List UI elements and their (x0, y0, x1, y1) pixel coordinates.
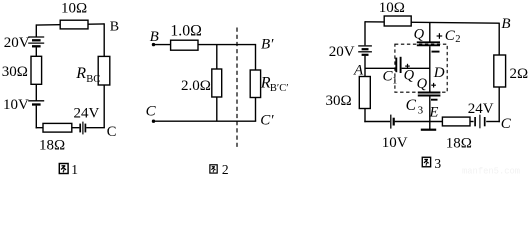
resistor 1.0Ω fig2 (171, 40, 198, 50)
wire fig3 A branch left of C1 (365, 67, 395, 69)
wire fig1 right vertical B-C (103, 23, 105, 127)
svg-text:10Ω: 10Ω (379, 0, 405, 16)
svg-text:C: C (406, 97, 417, 114)
plus sign C1 fig3 (405, 64, 410, 69)
svg-text:R: R (75, 65, 86, 82)
svg-text:1: 1 (392, 76, 397, 87)
resistor 2.0Ω fig2 (212, 69, 222, 97)
wire fig2 top (154, 44, 256, 46)
svg-text:24V: 24V (468, 101, 494, 117)
svg-text:BC: BC (86, 74, 100, 85)
svg-text:Q: Q (404, 67, 415, 83)
resistor 18Ω fig1 (43, 123, 72, 132)
wire fig3 right vertical upper (498, 23, 500, 55)
battery 20V fig1 (two cells) (28, 37, 44, 46)
label RB'C' fig2 (260, 75, 289, 95)
svg-text:E: E (429, 104, 439, 120)
node B fig2 (terminal dot) (152, 43, 155, 46)
resistor RBC fig1 (98, 56, 110, 85)
wire fig1 top (36, 24, 104, 25)
resistor 30Ω fig3 (359, 77, 370, 109)
capacitor C1 fig3 (396, 57, 400, 73)
svg-text:2: 2 (455, 34, 460, 45)
svg-text:3: 3 (418, 104, 424, 116)
svg-text:B: B (501, 16, 510, 32)
resistor 30Ω fig1 (31, 56, 42, 84)
svg-text:30Ω: 30Ω (2, 64, 28, 80)
plus sign C3 fig3 (431, 83, 436, 88)
wire fig3 right vertical lower (498, 87, 500, 122)
svg-text:B: B (150, 29, 159, 45)
svg-text:C′: C′ (260, 113, 274, 129)
caption 图1 (59, 162, 78, 177)
capacitor C3 fig3 (418, 93, 441, 96)
minus sign C3 fig3 (431, 99, 438, 101)
wire fig1 bottom right (86, 127, 105, 129)
battery 24V fig3 (horizontal) (475, 115, 485, 129)
wire fig1 left between battery and 30ohm (35, 47, 37, 56)
resistor 10Ω fig1 (60, 20, 88, 29)
label C1 fig3 (383, 69, 398, 87)
svg-text:24V: 24V (74, 106, 100, 122)
wire fig2 bottom (154, 120, 257, 122)
dashed box fig3 (395, 44, 447, 92)
wire fig3 center branch below C3 (429, 96, 431, 121)
wire fig3 top (365, 22, 499, 23)
label C2 fig3 (445, 28, 461, 45)
svg-text:10V: 10V (3, 97, 29, 113)
wire fig3 left between battery and A (364, 56, 366, 77)
svg-text:18Ω: 18Ω (446, 136, 472, 152)
svg-text:20V: 20V (4, 35, 30, 51)
resistor 18Ω fig3 (442, 117, 470, 126)
svg-text:C: C (501, 116, 512, 132)
svg-text:B: B (110, 20, 119, 35)
svg-text:Q: Q (417, 76, 428, 92)
minus sign C2 fig3 (432, 51, 440, 53)
svg-text:1.0Ω: 1.0Ω (170, 22, 202, 39)
wire fig1 left between 30ohm and 10V (35, 84, 37, 100)
svg-text:10Ω: 10Ω (61, 0, 87, 16)
svg-text:30Ω: 30Ω (326, 93, 352, 109)
battery 10V fig3 (horizontal) (391, 115, 394, 129)
node C fig2 (terminal dot) (152, 120, 155, 123)
caption 图2 (210, 162, 229, 177)
wire fig3 A branch right of C1 (402, 67, 431, 69)
wire fig3 left vertical upper (364, 21, 366, 45)
wire fig1 left lower (35, 106, 37, 129)
svg-text:B′C′: B′C′ (270, 83, 289, 94)
svg-text:D: D (433, 65, 445, 81)
plus sign C2 fig3 (437, 33, 443, 39)
svg-text:C: C (146, 104, 157, 120)
svg-text:3: 3 (434, 156, 441, 171)
svg-text:2.0Ω: 2.0Ω (181, 78, 211, 94)
wire fig2 2.0ohm branch lower (216, 97, 218, 121)
resistor 10Ω fig3 (384, 16, 411, 26)
battery 24V fig1 (horizontal) (80, 122, 85, 135)
dashed boundary line fig2 (236, 28, 238, 148)
svg-text:Q: Q (414, 27, 425, 43)
resistor 2Ω fig3 (494, 55, 506, 87)
svg-text:1: 1 (71, 162, 78, 175)
svg-text:10V: 10V (382, 135, 408, 151)
svg-text:18Ω: 18Ω (39, 138, 65, 154)
resistor RB'C' fig2 (250, 70, 260, 98)
capacitor C2 fig3 (417, 42, 440, 45)
wire fig1 left vertical upper (35, 24, 37, 37)
caption 图3 (422, 156, 441, 171)
wire fig3 center branch above C2 (429, 22, 431, 41)
label RBC fig1 (75, 65, 100, 85)
svg-text:20V: 20V (329, 44, 355, 60)
wire fig3 left below 30ohm (364, 109, 366, 123)
wire fig2 right vertical (255, 44, 257, 121)
wire fig1 bottom left (36, 127, 80, 129)
svg-text:2Ω: 2Ω (510, 66, 529, 82)
svg-text:B′: B′ (261, 37, 274, 53)
wire fig3 bottom segment 3 (470, 121, 474, 123)
svg-text:C: C (445, 28, 456, 44)
svg-text:C: C (107, 124, 117, 140)
svg-text:2: 2 (222, 162, 229, 175)
wire fig3 bottom segment 4 (486, 121, 500, 123)
wire fig3 bottom segment 1 (364, 121, 390, 123)
label C3 fig3 (406, 97, 424, 116)
battery 20V fig3 (two cells) (358, 46, 372, 55)
wire fig3 center branch C2 to C3 (429, 46, 431, 91)
wire fig2 2.0ohm branch upper (216, 45, 218, 69)
ground symbol fig3 (421, 122, 436, 130)
svg-text:manfen5.com: manfen5.com (462, 167, 520, 176)
wire fig3 bottom segment 2 (395, 121, 443, 123)
battery 10V fig1 (one cell) (28, 101, 44, 105)
